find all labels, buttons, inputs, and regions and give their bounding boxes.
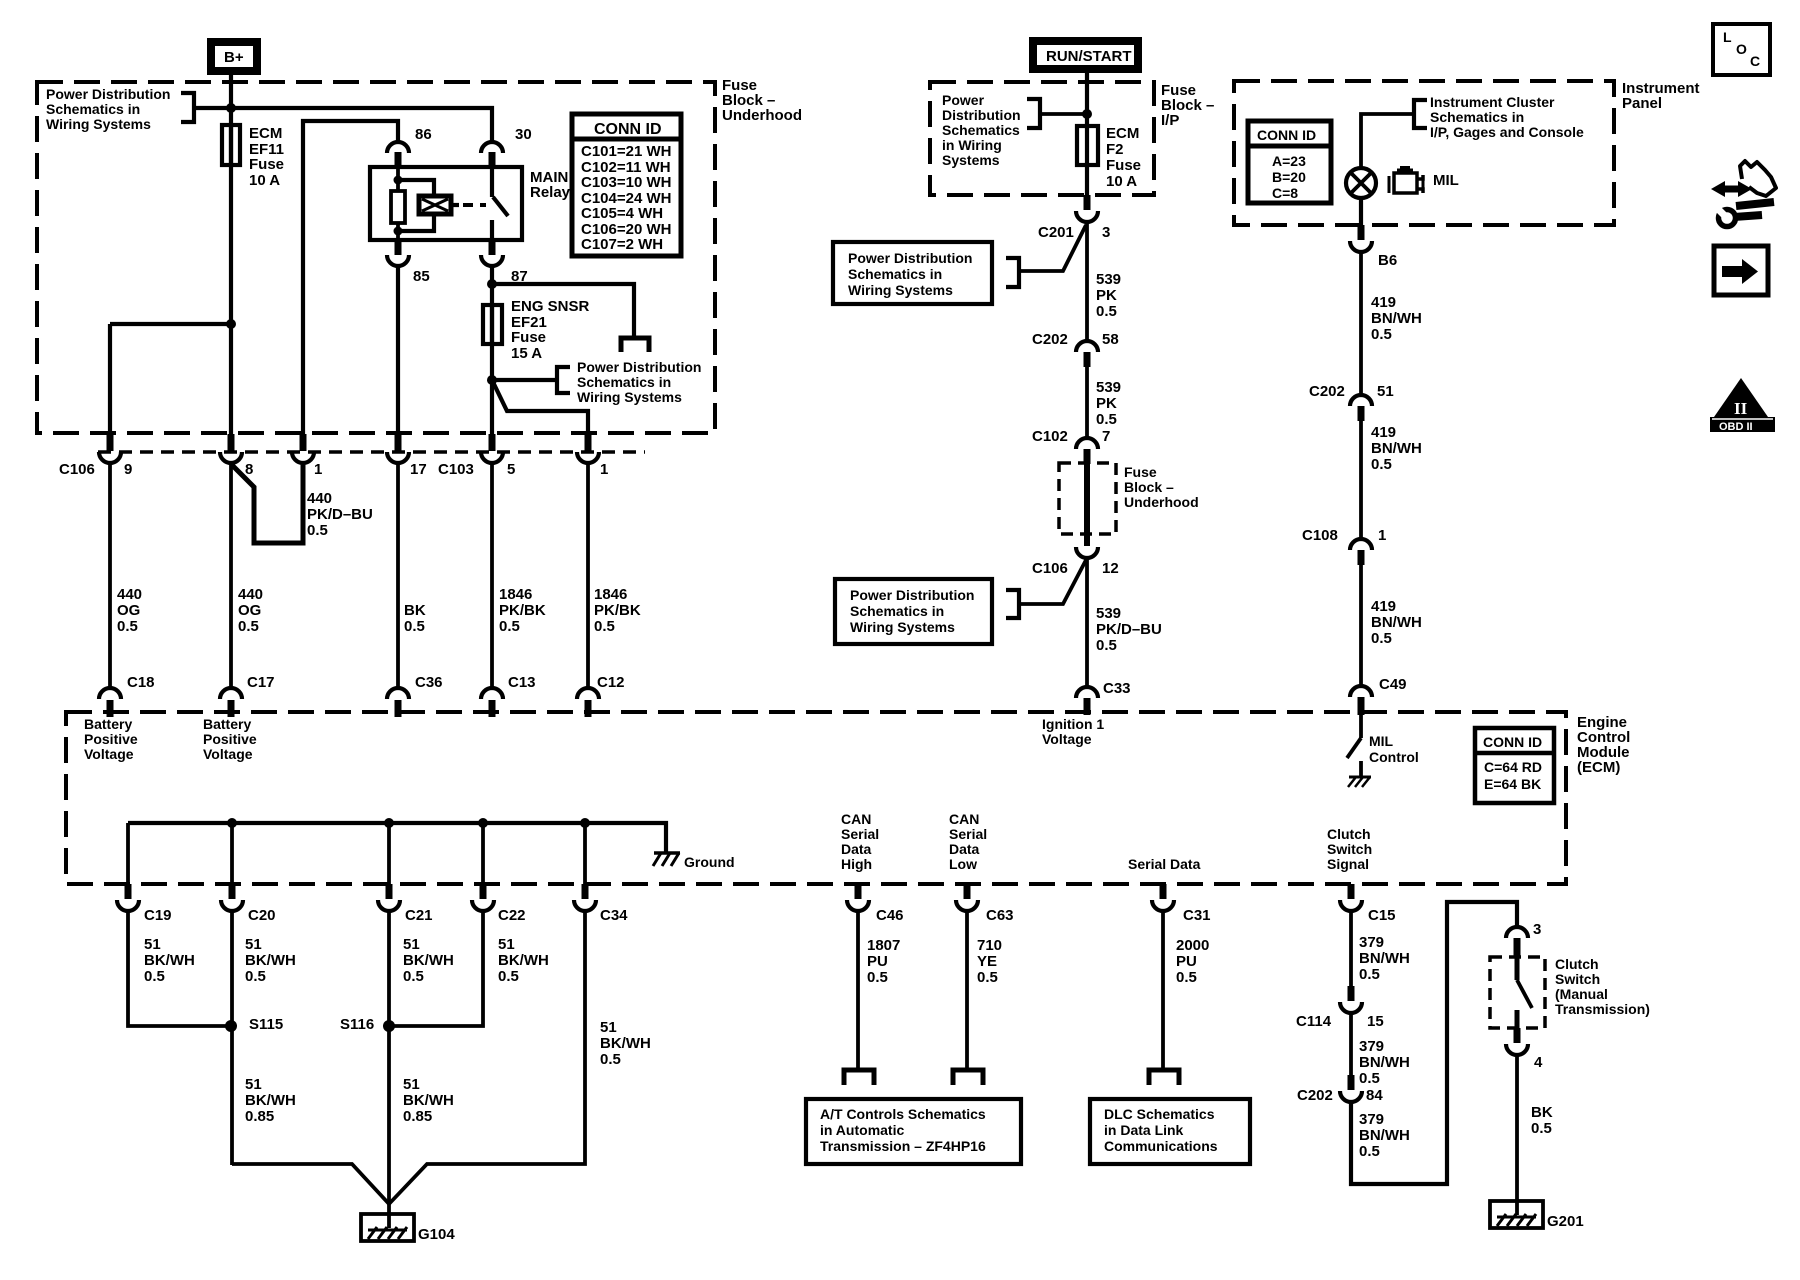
note box Power Distribution Schematics (C106-12) [835, 579, 992, 644]
svg-text:PK: PK [1096, 287, 1117, 304]
wire branch to power distribution goalpost [492, 284, 634, 338]
wire C106-12 to C33 [1085, 558, 1089, 688]
node splice S115 [225, 1016, 283, 1033]
svg-text:Battery: Battery [84, 716, 132, 732]
label wire 419 BN/WH 0.5 (2) [1371, 424, 1422, 473]
label wire 440 PK/D-BU 0.5 [307, 490, 373, 539]
wire bracket to C106-12 [1019, 560, 1086, 604]
svg-text:Systems: Systems [942, 152, 1000, 168]
svg-text:1: 1 [1378, 527, 1386, 544]
wire C22 to S116 [389, 911, 483, 1026]
icon OBD II emblem [1710, 378, 1775, 433]
svg-text:(ECM): (ECM) [1577, 759, 1620, 776]
label wire 2000 PU 0.5 [1176, 937, 1209, 986]
svg-text:BN/WH: BN/WH [1359, 950, 1410, 967]
svg-text:C201: C201 [1038, 224, 1074, 241]
svg-text:0.5: 0.5 [403, 968, 424, 985]
svg-text:C101=21 WH: C101=21 WH [581, 143, 671, 160]
svg-text:BK/WH: BK/WH [245, 1092, 296, 1109]
svg-text:0.5: 0.5 [245, 968, 266, 985]
connector C202 pin 51 [1309, 383, 1394, 421]
svg-text:Power Distribution: Power Distribution [46, 86, 170, 102]
svg-text:Transmission): Transmission) [1555, 1001, 1650, 1017]
svg-text:Low: Low [949, 856, 977, 872]
bracket to note (top left) [181, 93, 194, 122]
svg-text:Schematics in: Schematics in [1430, 109, 1524, 125]
note Power Distribution Schematics (eng snsr) [577, 359, 701, 405]
connector C12 [577, 674, 625, 717]
lamp MIL indicator [1346, 168, 1376, 198]
connector C22 [472, 884, 526, 924]
ground G104 [361, 1214, 455, 1243]
svg-text:BK/WH: BK/WH [498, 952, 549, 969]
wire bus drop C21 [387, 823, 391, 884]
label wire BK 0.5 [1531, 1104, 1553, 1137]
svg-text:86: 86 [415, 126, 432, 143]
label fuse ECM EF11 [249, 125, 284, 189]
svg-text:C31: C31 [1183, 907, 1211, 924]
svg-text:C17: C17 [247, 674, 275, 691]
svg-text:0.5: 0.5 [499, 618, 520, 635]
svg-text:C=64 RD: C=64 RD [1484, 759, 1542, 775]
svg-text:51: 51 [144, 936, 161, 953]
svg-text:Battery: Battery [203, 716, 251, 732]
svg-text:BN/WH: BN/WH [1371, 614, 1422, 631]
svg-text:Wiring Systems: Wiring Systems [577, 389, 682, 405]
switch clutch contacts [1517, 958, 1532, 1029]
wire C34 to ground merge [388, 911, 585, 1205]
svg-text:C18: C18 [127, 674, 155, 691]
connector C20 [221, 884, 276, 924]
node pin87 branch [487, 279, 497, 289]
wire C114 to C202-84 [1349, 1014, 1353, 1076]
svg-text:51: 51 [600, 1019, 617, 1036]
svg-text:C102: C102 [1032, 428, 1068, 445]
svg-text:C46: C46 [876, 907, 904, 924]
svg-text:Data: Data [949, 841, 980, 857]
label wire 1846 PK/BK 0.5 (C12) [594, 586, 641, 635]
svg-text:58: 58 [1102, 331, 1119, 348]
svg-text:1846: 1846 [594, 586, 627, 603]
svg-text:51: 51 [1377, 383, 1394, 400]
svg-text:C34: C34 [600, 907, 628, 924]
wire pin 87 down to C103-5 [490, 266, 494, 436]
svg-text:C63: C63 [986, 907, 1014, 924]
bracket to note box (C201) [1006, 258, 1019, 287]
svg-text:(Manual: (Manual [1555, 986, 1608, 1002]
svg-text:ECM: ECM [1106, 125, 1139, 142]
svg-text:BK/WH: BK/WH [245, 952, 296, 969]
svg-text:L: L [1723, 29, 1732, 45]
node bus C20 [227, 818, 237, 828]
off-page goalpost C63 [953, 1070, 983, 1085]
connector pin 87 of relay [481, 240, 528, 285]
node relay coil bottom [394, 227, 403, 236]
svg-text:Communications: Communications [1104, 1138, 1218, 1154]
ground chassis symbol (MIL driver) [1348, 777, 1371, 787]
switch MIL control driver [1347, 714, 1361, 776]
svg-text:F2: F2 [1106, 141, 1124, 158]
label CAN Serial Data Low [949, 811, 987, 872]
svg-text:C22: C22 [498, 907, 526, 924]
label Fuse Block Underhood [722, 77, 802, 124]
connector C106 pin 9 [59, 434, 132, 478]
svg-text:Clutch: Clutch [1555, 956, 1599, 972]
wire C202-84 loop to clutch switch pin 3 [1351, 902, 1517, 1184]
relay MAIN Relay box [370, 167, 522, 240]
svg-text:in Data Link: in Data Link [1104, 1122, 1184, 1138]
node junction at B+ bus [226, 103, 236, 113]
svg-text:0.5: 0.5 [600, 1051, 621, 1068]
bracket to note (eng snsr) [557, 367, 570, 393]
svg-text:Fuse: Fuse [1124, 464, 1157, 480]
svg-text:CONN ID: CONN ID [594, 121, 662, 138]
ECM dashed box [66, 712, 1566, 884]
svg-text:0.5: 0.5 [307, 522, 328, 539]
relay switch contact 30 [490, 167, 494, 197]
svg-text:0.5: 0.5 [498, 968, 519, 985]
svg-text:710: 710 [977, 937, 1002, 954]
svg-text:Panel: Panel [1622, 95, 1662, 112]
svg-text:CAN: CAN [949, 811, 979, 827]
svg-text:0.5: 0.5 [1096, 303, 1117, 320]
svg-text:in Automatic: in Automatic [820, 1122, 904, 1138]
connector clutch switch pin 3 [1506, 921, 1541, 958]
svg-text:Power Distribution: Power Distribution [850, 587, 974, 603]
wire C202-51 to C108-1 [1359, 421, 1363, 540]
svg-text:C21: C21 [405, 907, 433, 924]
svg-text:C202: C202 [1309, 383, 1345, 400]
svg-text:I/P: I/P [1161, 112, 1179, 129]
svg-text:Schematics in: Schematics in [850, 603, 944, 619]
label Fuse Block I/P [1161, 82, 1214, 129]
svg-text:10 A: 10 A [249, 172, 280, 189]
label wire 379 BN/WH 0.5 (3) [1359, 1111, 1410, 1160]
svg-text:539: 539 [1096, 379, 1121, 396]
svg-text:Ground: Ground [684, 854, 735, 870]
svg-text:84: 84 [1366, 1087, 1383, 1104]
wire C103-17 to C36 [396, 463, 400, 689]
svg-text:Transmission – ZF4HP16: Transmission – ZF4HP16 [820, 1138, 986, 1154]
wire bracket to MIL lamp [1361, 114, 1414, 168]
connector C33 [1076, 680, 1131, 715]
icon check engine [1389, 168, 1423, 193]
wire C63 to A/T controls [965, 911, 969, 1070]
label Clutch Switch Signal [1327, 826, 1372, 872]
wire C201 to C202-58 [1085, 222, 1089, 342]
connector pin 30 of relay [481, 126, 532, 167]
label wire 1807 PU 0.5 [867, 937, 900, 986]
svg-text:ENG SNSR: ENG SNSR [511, 298, 590, 315]
svg-text:S116: S116 [340, 1016, 374, 1033]
label wire BK 0.5 [404, 602, 426, 635]
note Power Distribution Schematics (top left) [46, 86, 170, 132]
svg-text:Power Distribution: Power Distribution [848, 250, 972, 266]
connector C114 pin 15 [1296, 986, 1384, 1030]
svg-text:C202: C202 [1297, 1087, 1333, 1104]
svg-text:II: II [1734, 399, 1748, 418]
wire bus drop C19 [126, 823, 130, 884]
svg-text:Instrument Cluster: Instrument Cluster [1430, 94, 1555, 110]
bracket to note box (C106-12) [1006, 590, 1019, 618]
svg-text:Power: Power [942, 92, 985, 108]
connector C106 pin 1 [292, 434, 322, 478]
icon forward arrow box [1714, 246, 1768, 295]
label wire 379 BN/WH 0.5 (2) [1359, 1038, 1410, 1087]
wire RUN/START down [1085, 69, 1089, 126]
clutch switch dashed box [1490, 957, 1545, 1028]
svg-text:BK: BK [1531, 1104, 1553, 1121]
svg-text:CONN ID: CONN ID [1483, 734, 1542, 750]
svg-text:0.5: 0.5 [594, 618, 615, 635]
note box Power Distribution Schematics (C201) [833, 242, 992, 304]
off-page goalpost C31 [1149, 1070, 1179, 1085]
svg-text:379: 379 [1359, 1111, 1384, 1128]
connector C13 [481, 674, 536, 717]
fuse ECM EF11 10A [222, 125, 240, 165]
svg-text:Schematics in: Schematics in [46, 101, 140, 117]
svg-text:BK/WH: BK/WH [403, 952, 454, 969]
svg-text:8: 8 [245, 461, 253, 478]
svg-text:379: 379 [1359, 934, 1384, 951]
svg-text:Distribution: Distribution [942, 107, 1021, 123]
svg-text:PU: PU [1176, 953, 1197, 970]
label Instrument Panel [1622, 80, 1700, 112]
svg-text:G201: G201 [1547, 1213, 1584, 1230]
svg-text:C15: C15 [1368, 907, 1396, 924]
connector C15 [1340, 884, 1396, 924]
B+ battery feed box [211, 42, 257, 71]
wire pin1 C106 to relay pin 86 [303, 121, 398, 436]
svg-text:51: 51 [403, 936, 420, 953]
label wire 419 BN/WH 0.5 (1) [1371, 294, 1422, 343]
svg-text:PU: PU [867, 953, 888, 970]
wire pin 4 to G201 [1515, 1056, 1519, 1215]
svg-text:S115: S115 [249, 1016, 283, 1033]
svg-text:PK/D–BU: PK/D–BU [307, 506, 373, 523]
svg-text:17: 17 [410, 461, 427, 478]
connector C18 [99, 674, 155, 717]
relay switch blade [493, 197, 508, 216]
wire branch to C106 pin 9 [110, 322, 231, 326]
svg-text:3: 3 [1533, 921, 1541, 938]
off-page goalpost C46 [844, 1070, 874, 1085]
svg-text:C36: C36 [415, 674, 443, 691]
wire coil parallel loop [398, 180, 434, 197]
svg-text:85: 85 [413, 268, 430, 285]
svg-text:C: C [1750, 53, 1760, 69]
svg-text:Voltage: Voltage [1042, 731, 1092, 747]
svg-text:C12: C12 [597, 674, 625, 691]
svg-text:0.85: 0.85 [245, 1108, 274, 1125]
wire C106-9 to C18 [108, 463, 112, 689]
svg-text:Serial: Serial [949, 826, 987, 842]
label Ignition 1 Voltage [1042, 716, 1104, 747]
svg-text:1: 1 [314, 461, 322, 478]
svg-text:Fuse: Fuse [511, 329, 546, 346]
svg-text:51: 51 [245, 936, 262, 953]
connector C31 [1152, 884, 1211, 924]
label wire 539 PK 0.5 (lower) [1096, 379, 1121, 428]
svg-text:10 A: 10 A [1106, 173, 1137, 190]
node bus C21 [384, 818, 394, 828]
svg-text:C49: C49 [1379, 676, 1407, 693]
connector C106 pin 12 [1032, 547, 1119, 577]
svg-text:1: 1 [600, 461, 608, 478]
svg-text:BN/WH: BN/WH [1359, 1054, 1410, 1071]
wire C103-5 to C13 [490, 463, 494, 689]
wire lamp to B6 [1359, 198, 1363, 226]
label MIL Control [1369, 733, 1419, 765]
wire C19 to S115 [128, 911, 230, 1026]
svg-text:0.5: 0.5 [1359, 1143, 1380, 1160]
svg-text:Switch: Switch [1327, 841, 1372, 857]
svg-text:30: 30 [515, 126, 532, 143]
wire bus drop C34 [583, 823, 587, 884]
svg-text:0.5: 0.5 [1371, 326, 1392, 343]
svg-text:539: 539 [1096, 271, 1121, 288]
connector C201 pin 3 [1038, 195, 1110, 241]
label wire 51 BK/WH 0.5 (C22) [498, 936, 549, 985]
svg-text:0.5: 0.5 [1371, 630, 1392, 647]
wire C31 to DLC [1161, 911, 1165, 1070]
wire bus drop C22 [481, 823, 485, 884]
svg-text:0.5: 0.5 [1359, 1070, 1380, 1087]
connector C106 pin 8 [220, 434, 253, 478]
svg-text:MIL: MIL [1433, 172, 1459, 189]
label wire 710 YE 0.5 [977, 937, 1002, 986]
svg-text:3: 3 [1102, 224, 1110, 241]
icon diagnostic arrows and wrench [1711, 161, 1776, 227]
label Fuse Block Underhood (small) [1124, 464, 1199, 510]
svg-text:PK/BK: PK/BK [594, 602, 641, 619]
svg-text:51: 51 [403, 1076, 420, 1093]
svg-text:440: 440 [238, 586, 263, 603]
svg-text:12: 12 [1102, 560, 1119, 577]
svg-text:0.5: 0.5 [1176, 969, 1197, 986]
connector C103 pin 17 [387, 434, 474, 478]
svg-text:Underhood: Underhood [722, 107, 802, 124]
wire C103-1 to C12 [586, 463, 590, 689]
svg-text:Positive: Positive [84, 731, 138, 747]
ground G201 [1490, 1201, 1584, 1230]
svg-text:Wiring Systems: Wiring Systems [850, 619, 955, 635]
wire bracket to C201 [1019, 225, 1086, 271]
relay coil wire pin 86 side [396, 167, 400, 192]
svg-text:BK/WH: BK/WH [403, 1092, 454, 1109]
label fuse ECM F2 [1106, 125, 1141, 190]
svg-text:C103=10 WH: C103=10 WH [581, 174, 671, 191]
connector C34 [574, 884, 628, 924]
svg-text:15 A: 15 A [511, 345, 542, 362]
svg-text:0.5: 0.5 [117, 618, 138, 635]
svg-text:51: 51 [245, 1076, 262, 1093]
svg-text:539: 539 [1096, 605, 1121, 622]
svg-text:Voltage: Voltage [84, 746, 134, 762]
wire C46 to A/T controls [856, 911, 860, 1070]
svg-text:PK/D–BU: PK/D–BU [1096, 621, 1162, 638]
svg-text:BN/WH: BN/WH [1371, 310, 1422, 327]
label wire 539 PK 0.5 (upper) [1096, 271, 1121, 320]
connector B6 [1350, 225, 1397, 269]
svg-text:0.85: 0.85 [403, 1108, 432, 1125]
svg-text:OG: OG [238, 602, 261, 619]
svg-text:CAN: CAN [841, 811, 871, 827]
svg-text:0.5: 0.5 [144, 968, 165, 985]
svg-text:C202: C202 [1032, 331, 1068, 348]
fuse ECM F2 10A [1077, 126, 1098, 165]
fuse block underhood dashed box [37, 82, 715, 433]
svg-text:Relay: Relay [530, 184, 571, 201]
svg-text:419: 419 [1371, 424, 1396, 441]
label Battery Positive Voltage (C18) [84, 716, 138, 762]
RUN/START feed box [1033, 41, 1138, 69]
svg-text:C103: C103 [438, 461, 474, 478]
node ignition feed [1082, 109, 1092, 119]
svg-text:7: 7 [1102, 428, 1110, 445]
svg-text:Schematics in: Schematics in [848, 266, 942, 282]
svg-text:C20: C20 [248, 907, 276, 924]
svg-text:440: 440 [117, 586, 142, 603]
svg-text:Wiring Systems: Wiring Systems [848, 282, 953, 298]
connector C108 pin 1 [1302, 527, 1386, 565]
wire jumper 440 PK/D-BU pin8 to pin1 [231, 464, 303, 543]
svg-text:Fuse: Fuse [1106, 157, 1141, 174]
connector C202 pin 84 [1297, 1075, 1383, 1104]
svg-text:Control: Control [1369, 749, 1419, 765]
label MAIN Relay [530, 169, 571, 201]
node bus C22 [478, 818, 488, 828]
label wire 51 BK/WH 0.5 (C34) [600, 1019, 651, 1068]
note Instrument Cluster Schematics [1430, 94, 1584, 140]
svg-text:5: 5 [507, 461, 515, 478]
wire fuse F2 to C201 [1085, 165, 1089, 196]
svg-text:Serial Data: Serial Data [1128, 856, 1201, 872]
svg-text:BN/WH: BN/WH [1359, 1127, 1410, 1144]
svg-text:Voltage: Voltage [203, 746, 253, 762]
wire bus drop C20 [230, 823, 234, 884]
svg-text:4: 4 [1534, 1054, 1543, 1071]
connector C19 [117, 884, 172, 924]
wire to bracket note [492, 378, 557, 382]
label fuse ENG SNSR EF21 [511, 298, 590, 362]
CONN ID table ECM [1475, 728, 1554, 803]
connector row dashed line [98, 450, 645, 454]
svg-text:C=8: C=8 [1272, 185, 1298, 201]
relay switch contact 87 [490, 220, 494, 240]
svg-text:OG: OG [117, 602, 140, 619]
label wire 51 BK/WH 0.5 (C21) [403, 936, 454, 985]
svg-text:Signal: Signal [1327, 856, 1369, 872]
label CAN Serial Data High [841, 811, 879, 872]
connector C36 [387, 674, 443, 717]
wire S115 to ground merge [232, 1164, 390, 1205]
connector C49 [1350, 676, 1407, 715]
svg-text:419: 419 [1371, 598, 1396, 615]
svg-text:G104: G104 [418, 1226, 455, 1243]
svg-text:B=20: B=20 [1272, 169, 1306, 185]
label wire 51 BK/WH 0.5 (C20) [245, 936, 296, 985]
svg-text:15: 15 [1367, 1013, 1384, 1030]
CONN ID table instrument cluster [1248, 121, 1331, 203]
svg-text:2000: 2000 [1176, 937, 1209, 954]
wire horizontal B+ bus to relay pin 30 [194, 108, 492, 142]
wire diagonal branch to C103-1 [492, 380, 588, 436]
label Battery Positive Voltage (C17) [203, 716, 257, 762]
svg-text:Schematics in: Schematics in [577, 374, 671, 390]
svg-text:PK: PK [1096, 395, 1117, 412]
svg-text:C107=2 WH: C107=2 WH [581, 236, 663, 253]
